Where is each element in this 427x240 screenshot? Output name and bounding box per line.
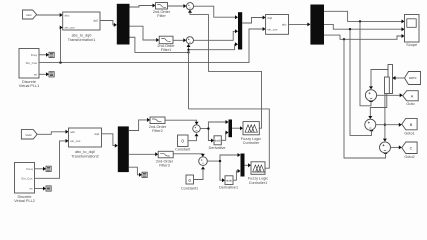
svg-text:Goto: Goto bbox=[406, 102, 414, 106]
constant Constant bbox=[175, 135, 191, 152]
wire Sum2 out to Mux1 in2 bbox=[194, 29, 239, 40]
sum Sum4 bbox=[199, 157, 208, 166]
wire Sum1 bottom input from fuzzy feedback bbox=[188, 10, 209, 15]
sum Sum3 bbox=[193, 125, 201, 133]
sum SumC bbox=[380, 142, 391, 153]
wire feedback B (Fuzzy Logic Controller1 out up) bbox=[189, 109, 270, 168]
wire rect2 to SumB top bbox=[368, 94, 387, 120]
svg-text:Derivative: Derivative bbox=[209, 146, 226, 150]
block Discrete Virtual PLL2 bbox=[14, 163, 35, 204]
block dq0_to_abc Transformation bbox=[266, 15, 289, 35]
svg-text:Virtual PLL2: Virtual PLL2 bbox=[14, 199, 35, 203]
wire PLL1 Freq to terminator bbox=[39, 53, 49, 57]
wire MuxT to Fuzzy Logic Controller bbox=[232, 126, 243, 130]
terminator T1a bbox=[49, 52, 54, 57]
wire phase c branch down right column bbox=[344, 39, 388, 158]
wire Derivative1 to Mux2 in2 bbox=[233, 169, 241, 180]
tag Iabc (From) bbox=[23, 10, 37, 19]
wire Sum2 bottom input / feedback vertical bbox=[187, 44, 191, 109]
wire Transformation1 dq0 to Demux1 bbox=[100, 21, 117, 27]
svg-text:C: C bbox=[410, 146, 413, 150]
wire Demux3 out3 to Scope in3 bbox=[324, 34, 405, 41]
svg-text:wt: wt bbox=[30, 187, 33, 191]
svg-text:Constant1: Constant1 bbox=[181, 186, 198, 190]
wire PLL1 wt to terminator bbox=[39, 72, 49, 76]
wire phase b branch down right column bbox=[350, 29, 374, 135]
wire Demux1 out2 to 2nd-Order Filter1 bbox=[130, 26, 160, 42]
wire Demux3 out1 to Scope in1 bbox=[324, 11, 405, 23]
wire Demux3 out2 to Scope in2 bbox=[324, 24, 405, 31]
sum Sum1 bbox=[186, 3, 193, 10]
svg-text:Sin_Cos: Sin_Cos bbox=[21, 177, 33, 181]
svg-text:sin_cos: sin_cos bbox=[70, 139, 81, 143]
block 2nd-Order Filter bbox=[153, 3, 171, 19]
demux Demux3 bbox=[310, 5, 324, 45]
node sin_cos branch to Transformation1 bbox=[59, 26, 62, 64]
wire Mux2 to Fuzzy Logic Controller1 bbox=[245, 163, 252, 167]
svg-text:dq0: dq0 bbox=[93, 19, 98, 23]
wire Demux2 out3 to terminator bbox=[129, 167, 142, 177]
svg-text:Transformation2: Transformation2 bbox=[71, 154, 99, 158]
block abc_to_dq0 Transformation1 bbox=[63, 12, 100, 42]
svg-text:B: B bbox=[410, 123, 413, 127]
wire PLL2 Sin_Cos to Transformation2 sin_cos bbox=[35, 139, 69, 178]
sum Sum2 bbox=[186, 37, 193, 44]
svg-text:Scope: Scope bbox=[406, 43, 417, 47]
wire Sum4 out branches to Mux2 in1 and Derivative1 bbox=[207, 153, 240, 182]
wire Vabc to abc_to_dq0 Transformation2 abc bbox=[37, 130, 68, 135]
svg-text:abc: abc bbox=[65, 13, 70, 17]
node bypass junction bbox=[187, 51, 189, 53]
terminator T2a bbox=[46, 166, 51, 171]
svg-text:IGBT/F: IGBT/F bbox=[409, 77, 417, 80]
wire PLL2 wt to terminator bbox=[35, 187, 47, 191]
wire PLL1 Sin_Cos long horizontal to dq0_to_abc sin_cos bbox=[39, 27, 266, 63]
wire Constant to Sum3 bottom bbox=[188, 133, 199, 141]
constant Constant1 bbox=[181, 175, 198, 190]
derivative Derivative1 bbox=[219, 176, 238, 190]
scope Scope bbox=[405, 15, 420, 48]
wire Derivative to MuxT in2 bbox=[221, 131, 228, 141]
wire rect1 out to SumA top bbox=[369, 70, 388, 90]
block 2nd-Order Filter1 bbox=[157, 36, 175, 52]
sum SumA bbox=[365, 90, 376, 101]
wire rect2 to SumC top bbox=[383, 94, 387, 142]
block vertical rect2 (rotated) bbox=[385, 77, 390, 94]
wire Filter to Sum1 bbox=[168, 4, 187, 8]
svg-text:Virtual PLL1: Virtual PLL1 bbox=[19, 84, 40, 88]
wire PLL2 Freq to terminator bbox=[35, 167, 47, 171]
svg-text:Filter3: Filter3 bbox=[159, 164, 170, 168]
svg-text:sin_cos: sin_cos bbox=[65, 26, 76, 30]
wire Sum3 out branches to MuxT in1 and Derivative bbox=[200, 120, 228, 143]
wire dq0_to_abc abc to Demux3 bbox=[289, 22, 311, 26]
wire Transformation2 dq0 to Demux2 bbox=[102, 134, 118, 148]
wire SumB out to tag B bbox=[376, 123, 402, 127]
svg-text:Controller1: Controller1 bbox=[249, 181, 268, 185]
wire Iabc to abc_to_dq0 Transformation1 abc bbox=[37, 13, 63, 17]
derivative Derivative bbox=[209, 136, 226, 150]
svg-text:Goto1: Goto1 bbox=[404, 131, 414, 135]
demux Demux2 bbox=[118, 126, 129, 172]
tag B (Goto1) bbox=[402, 118, 417, 135]
svg-text:Iabc: Iabc bbox=[26, 13, 32, 17]
wire SumC out to tag C bbox=[391, 145, 402, 149]
demux Demux1 bbox=[117, 4, 130, 45]
block Discrete Virtual PLL1 bbox=[19, 49, 40, 89]
block 2nd-Order Filter3 bbox=[156, 151, 174, 167]
svg-text:dq0: dq0 bbox=[94, 132, 99, 136]
svg-text:0: 0 bbox=[181, 139, 184, 144]
block 2nd-Order Filter2 bbox=[149, 117, 167, 133]
wire SumA out to tag A bbox=[377, 93, 403, 97]
tag A (Goto) bbox=[403, 91, 419, 106]
svg-text:Freq: Freq bbox=[26, 167, 33, 171]
wire Constant1 to Sum4 bottom bbox=[194, 166, 206, 179]
svg-text:du/dt: du/dt bbox=[226, 179, 232, 183]
tag top-right (From) bbox=[405, 72, 421, 85]
svg-text:Constant: Constant bbox=[175, 148, 191, 152]
svg-text:Filter2: Filter2 bbox=[152, 129, 163, 133]
wire tag to rect1 bbox=[393, 76, 405, 80]
svg-text:Controller: Controller bbox=[243, 141, 260, 145]
sum SumB bbox=[365, 119, 376, 130]
svg-text:Sin_Cos: Sin_Cos bbox=[26, 61, 38, 65]
block vertical rect1 (rotated) bbox=[388, 65, 393, 94]
svg-text:sin_cos: sin_cos bbox=[267, 27, 278, 31]
wire Filter3 to Sum4 top bbox=[173, 154, 205, 157]
svg-text:Vabc: Vabc bbox=[25, 133, 32, 137]
terminator T2b bbox=[46, 186, 51, 191]
mux Mux1 bbox=[238, 12, 242, 49]
svg-text:abc: abc bbox=[70, 130, 75, 134]
mux Mux2 bbox=[241, 154, 245, 177]
svg-text:Transformation1: Transformation1 bbox=[68, 38, 96, 42]
svg-text:dq0: dq0 bbox=[267, 16, 272, 20]
wire Demux2 out1 to 2nd-Order Filter2 bbox=[129, 118, 150, 131]
wire Demux1 out1 to 2nd-Order Filter bbox=[130, 4, 156, 8]
block Fuzzy Logic Controller bbox=[241, 122, 261, 145]
wire Demux2 out2 to 2nd-Order Filter3 bbox=[129, 152, 158, 156]
wire Mux1 out to dq0_to_abc bbox=[242, 16, 265, 24]
wire Demux1 out3 bypass down bbox=[130, 37, 189, 52]
svg-text:Derivative1: Derivative1 bbox=[219, 186, 238, 190]
svg-text:Freq: Freq bbox=[31, 53, 38, 57]
svg-text:abc: abc bbox=[282, 23, 287, 27]
block Fuzzy Logic Controller1 bbox=[248, 162, 268, 185]
wire bypass to Mux1 in3 bbox=[187, 42, 238, 51]
svg-text:Goto2: Goto2 bbox=[404, 155, 414, 159]
wire feedback A (Fuzzy Logic Controller out to Sum1 bottom) bbox=[209, 14, 262, 128]
wire phase a branch down right column bbox=[360, 21, 373, 105]
terminator T1b bbox=[49, 72, 54, 77]
wire Sum1 out to Mux1 in1 bbox=[194, 6, 238, 19]
mux MuxT bbox=[229, 120, 233, 138]
block abc_to_dq0 Transformation2 bbox=[69, 128, 102, 158]
tag C (Goto2) bbox=[402, 142, 417, 159]
terminator T3 bbox=[142, 172, 147, 177]
svg-text:du/dt: du/dt bbox=[215, 139, 221, 143]
wire Filter2 to Sum3 top bbox=[165, 120, 199, 125]
wire Filter1 to Sum2 bbox=[173, 38, 186, 42]
tag Vabc (From) bbox=[21, 130, 37, 139]
svg-text:A: A bbox=[411, 94, 414, 98]
svg-text:wt: wt bbox=[34, 73, 37, 77]
svg-text:Filter1: Filter1 bbox=[161, 48, 172, 52]
svg-text:Filter: Filter bbox=[157, 14, 166, 18]
